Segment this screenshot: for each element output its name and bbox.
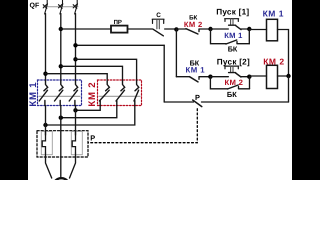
node branch1 left [208, 27, 212, 31]
svg-text:КМ 1: КМ 1 [263, 8, 284, 18]
node branch1 right [247, 27, 251, 31]
svg-text:P: P [195, 93, 200, 102]
KM2 contact pole 2 [116, 80, 125, 106]
motor M (top arc, cut by frame) [53, 178, 70, 195]
wire coil2 to return riser [278, 75, 289, 77]
wire control feed to fuse [61, 28, 111, 30]
heater element L3 [71, 132, 82, 155]
node rung feed junction [174, 27, 178, 31]
NC contact BK KM2 [186, 29, 198, 34]
wire to coil KM2 [249, 75, 266, 77]
wire L1 heater out [46, 153, 52, 178]
node branch2 left [208, 75, 212, 79]
wire coil1 to return riser [278, 30, 289, 77]
wire KM2 feed col1 [46, 74, 108, 80]
wire return bottom left segment [164, 101, 193, 103]
svg-text:Пуск [2]: Пуск [2] [217, 57, 250, 66]
wire return bottom right segment [202, 101, 289, 103]
node crossover on L3 [73, 108, 77, 112]
wire button2 to node [241, 76, 249, 78]
breaker QF pole 2 [59, 0, 63, 14]
wire KM2 feed col3 [76, 59, 137, 80]
contactor KM1 main contacts box [38, 80, 82, 106]
node return riser at rung2 [286, 74, 290, 78]
node crossover on L1 [43, 123, 47, 127]
wire KM2 out col1 crossover to L3 [76, 106, 101, 111]
KM1 contact pole 1 [39, 80, 48, 106]
wire to start button 2 [210, 76, 228, 78]
wire return riser left [163, 45, 165, 102]
heater element L1 [41, 132, 52, 155]
NO contact KM1 (self holding) [226, 40, 237, 44]
coil KM2 [267, 65, 278, 88]
branch2 self-holding: left drop [210, 77, 227, 89]
wire KM2 out col3 crossover to L1 [46, 106, 135, 126]
node branch2 right [247, 75, 251, 79]
wire phase L1 vertical [45, 14, 47, 81]
wire KM2 out col2 crossover to L2 [61, 106, 117, 118]
node KM2 feed 1 on L1 [43, 72, 47, 76]
contactor KM2 main contacts box [98, 80, 142, 106]
svg-text:КМ 2: КМ 2 [184, 20, 203, 29]
svg-text:БК: БК [227, 90, 237, 99]
svg-text:QF: QF [30, 2, 40, 9]
svg-text:КМ 2: КМ 2 [87, 82, 98, 107]
wire return to phase L3 [76, 44, 165, 46]
svg-text:КМ 2: КМ 2 [225, 78, 244, 87]
KM2 contact pole 3 [134, 80, 139, 106]
node control feed on L2 [59, 27, 63, 31]
start button Pusk 2 [225, 66, 241, 77]
wire to coil KM1 [249, 29, 266, 31]
wire L3 heater out [70, 153, 76, 178]
wire button1 to node [241, 28, 249, 30]
fuse PR [111, 26, 128, 33]
breaker QF pole 1 [43, 0, 47, 14]
wire L3 below box [75, 106, 77, 136]
wire to start button 1 [211, 28, 229, 30]
right letterbox bar [292, 0, 320, 180]
return riser down [288, 76, 290, 102]
node return on L3 [73, 43, 77, 47]
wire branch1 right rise [248, 29, 250, 44]
stop button C [152, 19, 164, 36]
node KM2 feed 3 on L3 [73, 57, 77, 61]
wire L2 to motor [60, 157, 62, 178]
wire branch2 right rise [249, 77, 251, 89]
NC contact BK KM1 [190, 77, 199, 82]
wire phase L3 vertical [75, 14, 77, 81]
KM1 linkage bar [39, 95, 80, 97]
node crossover on L2 [59, 116, 63, 120]
node KM2 feed 2 on L2 [59, 64, 63, 68]
wire phase L2 vertical [60, 14, 62, 81]
thermal relay P box [37, 131, 88, 157]
breaker QF linkage bar [44, 6, 79, 8]
svg-text:КМ 1: КМ 1 [186, 65, 206, 74]
wire fuse to stop button [128, 28, 153, 30]
wire feed drop to rung 2 [175, 29, 177, 76]
left letterbox bar [0, 0, 28, 180]
KM1 contact pole 2 [55, 80, 64, 106]
wire stop button to node [165, 28, 177, 30]
wire rung1 to NC contact [176, 28, 186, 30]
start button Pusk 1 [225, 19, 241, 30]
KM1 contact pole 3 [69, 80, 78, 106]
branch1 self-holding: left drop [211, 29, 227, 44]
svg-text:P: P [90, 133, 95, 142]
coil KM1 [267, 19, 278, 41]
NC contact P (thermal relay) [193, 100, 202, 107]
svg-text:КМ 1: КМ 1 [224, 31, 243, 40]
wire KM2 feed col2 [61, 66, 123, 80]
dotted link P contact to heaters [88, 109, 197, 143]
wire L2 below box [60, 106, 62, 158]
svg-text:Пуск [1]: Пуск [1] [216, 7, 249, 16]
rung2: wire from feed [176, 76, 189, 78]
breaker QF pole 3 [73, 0, 77, 14]
wire L1 below box [45, 106, 47, 136]
KM2 linkage bar [99, 95, 140, 97]
svg-text:БК: БК [228, 44, 238, 53]
svg-text:C: C [156, 12, 161, 19]
KM2 contact pole 1 [99, 80, 109, 106]
NO contact KM2 (self holding) [228, 85, 239, 89]
